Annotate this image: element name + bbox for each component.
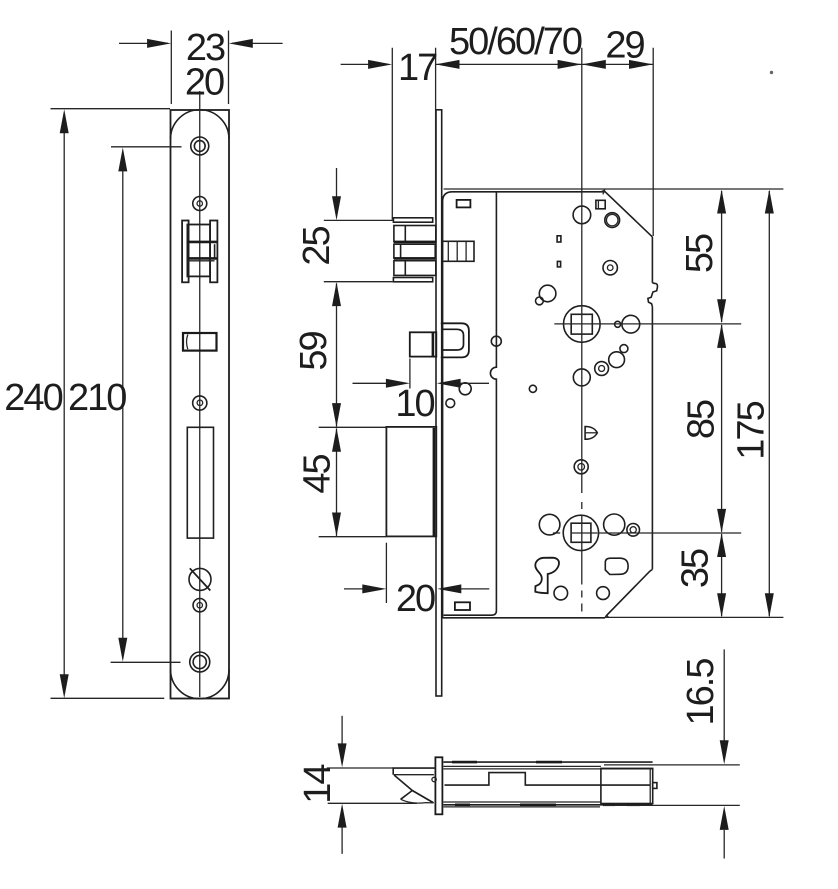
latch bolt top view <box>393 768 436 803</box>
faceplate side view <box>436 110 442 696</box>
svg-text:55: 55 <box>679 234 721 273</box>
ring V <box>627 524 640 537</box>
deadbolt slot front view <box>187 427 213 538</box>
faceplate top arc <box>171 110 230 139</box>
dim 17 <box>341 47 438 220</box>
lock case outline <box>443 192 605 618</box>
spindle follower <box>564 306 601 343</box>
hole N <box>459 383 471 395</box>
case corner cut bottom-right <box>605 569 652 617</box>
dim 35 <box>675 533 727 617</box>
case hole A <box>573 206 591 224</box>
svg-text:240: 240 <box>4 377 62 419</box>
dim 175 <box>731 190 774 618</box>
dim 85 <box>681 324 727 533</box>
svg-text:20: 20 <box>185 62 224 104</box>
faceplate bottom arc <box>171 670 230 699</box>
hole T <box>539 514 560 535</box>
hole Y1 <box>554 586 568 600</box>
faceplate centerline <box>199 91 201 697</box>
latch tail <box>442 241 474 261</box>
dim 50/60/70 <box>436 21 582 69</box>
cylinder horizontal centerline <box>553 532 741 534</box>
tiny rect upper <box>557 236 561 242</box>
dim 10 <box>353 359 490 426</box>
latch bolt side view <box>393 218 435 282</box>
hole U <box>604 514 625 535</box>
ext line bottom screw <box>111 661 181 663</box>
dim 29 <box>582 25 653 69</box>
small rect top <box>457 200 471 208</box>
ring C <box>603 261 617 275</box>
dim 210 <box>68 147 127 661</box>
svg-text:20: 20 <box>396 578 435 620</box>
ext line top screw <box>111 146 182 148</box>
case bottom edge <box>443 617 605 619</box>
svg-text:29: 29 <box>605 25 644 67</box>
ring Q <box>574 460 588 474</box>
hole M <box>529 385 536 392</box>
hole E <box>536 297 544 305</box>
leaf detail <box>585 426 597 439</box>
svg-text:50/60/70: 50/60/70 <box>449 21 582 63</box>
bean detail <box>605 558 628 574</box>
cylinder follower <box>563 515 598 550</box>
ext line plate bottom <box>51 697 165 699</box>
dim 20 <box>344 543 489 620</box>
ext line 29 right <box>652 48 654 236</box>
ext line plate top <box>51 108 171 110</box>
svg-text:17: 17 <box>398 47 437 89</box>
svg-text:175: 175 <box>731 401 773 459</box>
case corner cut top-right <box>601 190 653 237</box>
hole I <box>609 352 625 368</box>
hole G <box>615 321 621 327</box>
keyhole cam <box>535 558 559 594</box>
dim 240 <box>4 109 68 698</box>
auxiliary pin side view <box>410 332 437 356</box>
spindle horizontal centerline <box>554 323 741 325</box>
dim 45 <box>297 427 386 536</box>
auxiliary pin front view <box>183 333 217 351</box>
ring J <box>595 362 609 376</box>
hole L <box>573 369 590 386</box>
svg-text:210: 210 <box>68 377 126 419</box>
label 20 top <box>185 62 224 104</box>
svg-text:59: 59 <box>293 332 335 371</box>
speck <box>770 71 773 74</box>
svg-text:25: 25 <box>296 227 338 266</box>
svg-text:10: 10 <box>395 383 434 425</box>
middle small hole <box>193 396 207 410</box>
bottom screw hole <box>190 652 210 672</box>
small square with line <box>596 200 605 209</box>
auxiliary pin guide <box>441 323 469 357</box>
vertical centerline <box>581 48 583 612</box>
hole Y2 <box>597 587 610 600</box>
case top reference line <box>444 188 784 190</box>
hole D <box>539 285 556 302</box>
case right edge with clip tab <box>648 237 658 570</box>
svg-text:16.5: 16.5 <box>680 659 722 726</box>
cover plate inner edge <box>444 192 497 615</box>
bushing B <box>605 213 620 228</box>
faceplate front view outline <box>171 110 230 699</box>
dim 23 <box>119 27 283 104</box>
deadbolt side view <box>386 427 436 537</box>
dim 25 <box>296 168 393 282</box>
top screw hole <box>191 137 209 155</box>
tiny rect lower <box>557 261 560 267</box>
svg-text:85: 85 <box>681 400 723 439</box>
slotted screw <box>189 568 211 590</box>
svg-text:45: 45 <box>297 455 339 494</box>
dim 16.5 <box>604 649 740 858</box>
dim 55 <box>679 190 726 324</box>
lower small hole <box>193 599 206 612</box>
upper small hole <box>193 197 207 211</box>
hole K <box>620 345 628 353</box>
lock body top view <box>443 762 657 807</box>
faceplate top view <box>435 757 442 814</box>
small rect bottom <box>455 602 470 610</box>
latch bolt front view <box>182 221 217 283</box>
hole O <box>446 399 455 408</box>
svg-text:14: 14 <box>297 764 339 804</box>
svg-text:35: 35 <box>675 549 717 588</box>
dim 14 <box>297 716 417 854</box>
hole H <box>622 315 640 333</box>
hole on cover edge <box>491 336 501 346</box>
dim 59 <box>293 282 341 427</box>
ext line case bottom <box>605 616 783 618</box>
